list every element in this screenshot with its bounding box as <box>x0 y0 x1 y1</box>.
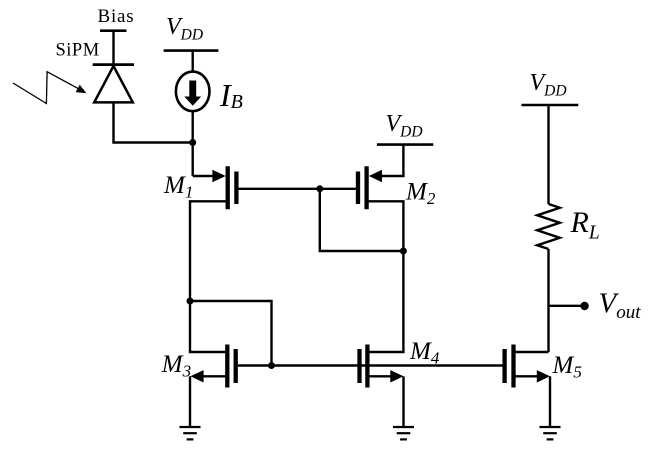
svg-text:SiPM: SiPM <box>56 41 100 61</box>
svg-text:Bias: Bias <box>98 6 135 27</box>
